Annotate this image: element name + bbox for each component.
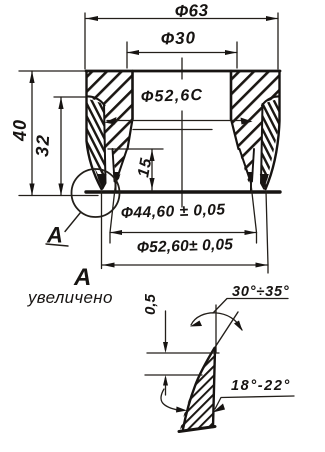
hatch left flange body: [87, 71, 133, 186]
dim 32 arrows: [58, 97, 63, 109]
detail chamfer slant line: [215, 312, 239, 348]
svg-text:0,5: 0,5: [142, 293, 159, 315]
bottom baseline extension: [19, 195, 98, 197]
dim f63 arrows: [86, 16, 98, 21]
dim 15 arrows: [149, 150, 154, 162]
dim f52.60 arrows: [103, 263, 115, 268]
detail wedge right edge: [213, 349, 215, 427]
dim f44.60 left extension: [110, 184, 116, 243]
detail 18-22 label leader with arrow: [215, 396, 294, 409]
svg-text:А: А: [73, 264, 91, 291]
dim 15 extension: [108, 148, 163, 150]
centerline: [181, 58, 183, 207]
detail 30-35 arc: [191, 313, 242, 330]
hatch right flange body: [231, 71, 279, 186]
f52.6C leader arrows: [105, 117, 117, 125]
detail 0,5 dim verticals and arrows: [165, 311, 167, 350]
svg-text:Ф52,60± 0,05: Ф52,60± 0,05: [137, 236, 234, 256]
dim 15 line: [151, 149, 153, 190]
dim f30 arrows: [127, 50, 139, 55]
f52.6C leader line: [107, 120, 249, 122]
dim f52.60 line: [102, 264, 268, 266]
svg-text:40: 40: [10, 119, 30, 142]
dim f63 extension left: [84, 13, 86, 69]
f52.6C second line: [133, 129, 212, 131]
hatch right outer lip strip: [261, 99, 280, 188]
dim f52.60 left extension: [101, 191, 103, 269]
hatch left outer lip strip: [86, 99, 106, 188]
dim 32 top extension: [54, 96, 86, 98]
dim 40 arrows: [29, 71, 34, 83]
part top edge: [86, 70, 280, 73]
detail callout circle A: [72, 169, 120, 217]
svg-text:32: 32: [32, 133, 53, 157]
right bore wall: [230, 71, 233, 119]
detail 0,5 lower line: [145, 374, 202, 376]
detail callout leader: [46, 213, 81, 247]
dim 32 line: [60, 97, 62, 196]
dim f44.60 right extension: [251, 184, 257, 243]
dim f30 line: [127, 52, 237, 54]
svg-text:Ф30: Ф30: [160, 28, 196, 48]
dim 40 line: [31, 71, 33, 196]
detail vertical line: [215, 305, 217, 352]
right outer lip tip fill: [260, 174, 269, 190]
left slit line: [87, 96, 105, 105]
left outer edge and taper: [87, 71, 102, 189]
svg-text:Ф63: Ф63: [174, 1, 208, 21]
svg-text:Ф52,6С: Ф52,6С: [141, 87, 204, 106]
dim f30 extension left: [126, 42, 128, 68]
detail wedge left edge: [183, 348, 215, 429]
svg-text:А: А: [46, 223, 63, 248]
svg-text:увеличено: увеличено: [27, 288, 113, 307]
dim f44.60 line: [110, 232, 257, 234]
dim 40 top extension: [19, 70, 85, 72]
right inner lip V: [252, 149, 254, 182]
right outer edge and taper: [266, 71, 280, 189]
svg-text:30°÷35°: 30°÷35°: [232, 284, 289, 300]
svg-text:Ф44,60 ± 0,05: Ф44,60 ± 0,05: [121, 201, 226, 222]
left bore wall: [131, 71, 134, 119]
right slit line: [262, 96, 280, 105]
detail wedge hatch: [180, 349, 215, 430]
left inner lip V: [113, 149, 115, 182]
dim f44.60 arrows: [110, 230, 122, 235]
detail 0,5 upper line: [147, 352, 219, 354]
dim f63 extension right: [277, 13, 279, 69]
right inner lip tip fill: [247, 172, 254, 184]
left outer lip tip fill: [98, 174, 107, 190]
right cone: [231, 119, 239, 149]
detail wedge base: [179, 427, 215, 432]
left cone: [128, 119, 133, 149]
detail 18-22 arc with arrow: [161, 389, 180, 411]
left inner lip tip fill: [113, 172, 120, 184]
part bottom edge: [86, 190, 280, 193]
dim f52.60 right extension: [266, 191, 268, 273]
svg-text:15: 15: [135, 156, 155, 179]
detail 30-35 label underline and leader: [213, 299, 288, 314]
svg-text:18°-22°: 18°-22°: [231, 378, 291, 394]
dim f30 extension right: [236, 42, 238, 68]
dim f63 line: [86, 18, 278, 20]
